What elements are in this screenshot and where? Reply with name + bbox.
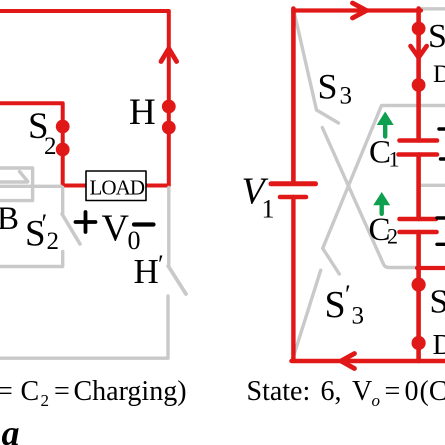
svg-text:2: 2 <box>47 228 60 255</box>
svg-text:D: D <box>433 61 445 88</box>
component: capacitor C2 bottom plate <box>400 230 437 235</box>
component: LOAD box <box>86 171 146 201</box>
wire: gray top-rail continuation to right edge <box>421 7 445 10</box>
current arrow (green) beside C2 <box>380 202 384 214</box>
wire: right vertical, C1-C2 middle segment <box>416 155 421 220</box>
wire: V1 negative lead + bottom rail <box>291 197 445 361</box>
svg-text:B: B <box>0 201 19 237</box>
svg-text:V: V <box>102 208 130 250</box>
svg-text:3: 3 <box>340 83 353 110</box>
label: minus sign of V0 <box>134 222 154 226</box>
node: H switch upper dot <box>162 100 176 114</box>
svg-text:D: D <box>433 329 445 361</box>
component: capacitor C2 top plate <box>400 217 437 222</box>
arrow inside gray box <box>0 172 28 183</box>
svg-text:′: ′ <box>345 280 351 309</box>
wire: gray lead from box to S2 node <box>0 185 61 188</box>
component: battery V1 short plate <box>280 195 306 200</box>
svg-text:3: 3 <box>352 303 365 330</box>
svg-text:1: 1 <box>389 147 400 172</box>
svg-text:S: S <box>325 284 346 326</box>
svg-text:2: 2 <box>387 224 398 249</box>
svg-text:LOAD: LOAD <box>90 176 146 200</box>
wire: down chevron arrow on right vertical <box>411 46 427 58</box>
label: minus dash right edge (C2 bottom) <box>437 243 445 246</box>
component: battery V1 long plate <box>271 181 316 186</box>
svg-text:State:6,Vo=0(C: State:6,Vo=0(C <box>247 376 445 410</box>
svg-text:2: 2 <box>44 133 57 160</box>
svg-text:H: H <box>129 92 156 133</box>
svg-text:H: H <box>134 252 159 291</box>
current arrow (green) beside C1 <box>383 122 387 137</box>
switch S2' open blade <box>62 214 80 244</box>
svg-text:=C2=Charging): =C2=Charging) <box>0 376 187 410</box>
svg-text:0: 0 <box>128 226 141 255</box>
node: H switch lower dot <box>162 121 176 135</box>
component: gray source box (cropped at left edge) <box>0 168 33 201</box>
switch S2' upper terminal stub <box>61 188 64 214</box>
label: minus dash right edge (C1 bottom) <box>441 157 445 160</box>
switch S3 open blade (gray) <box>294 11 339 124</box>
component: capacitor C1 bottom plate <box>399 152 438 157</box>
wire: H' lower stub and left-circuit bottom rail <box>0 296 168 358</box>
switch S3' open blade (gray) <box>293 270 321 359</box>
svg-text:S: S <box>428 18 445 55</box>
svg-text:S: S <box>318 67 338 107</box>
wire: gray mid tap at C1-C2 junction to right edge <box>420 184 445 187</box>
svg-text:′: ′ <box>158 250 164 279</box>
wire: right vertical, bottom segment (C2 to bottom rail) <box>416 232 421 361</box>
wire: current arrow (up chevron) on H branch <box>161 49 177 62</box>
wire: right vertical, top segment (to C1 top plate) <box>416 9 421 141</box>
node: dot above S (bottom) <box>412 278 426 292</box>
label: plus sign of V0 <box>76 212 96 232</box>
wire: gray lead from LOAD-right node down to H' <box>167 188 170 267</box>
node: dot below S (bottom) <box>412 336 426 350</box>
node: dot above C1 <box>412 78 426 92</box>
wire: V1 positive lead (left vertical) <box>291 9 296 184</box>
node: S2 switch upper dot <box>56 120 70 134</box>
svg-text:S: S <box>430 284 445 321</box>
node: S2 switch lower dot <box>56 143 70 157</box>
svg-text:1: 1 <box>262 195 275 224</box>
wire: right-circuit top rail <box>293 8 421 12</box>
wire: gray diagonal to bottom corner + horizontal to right vertical <box>322 128 418 268</box>
label: minus dash right edge (C1 top) <box>439 127 445 130</box>
node: dot above S (top) <box>412 22 426 36</box>
wire: current arrow (left chevron) on bottom rail <box>341 354 355 369</box>
wire: S2' lower stub and bottom lead to left edge <box>0 252 63 267</box>
svg-text:a: a <box>2 413 20 445</box>
label: minus dash right edge (C2 top) <box>437 216 445 219</box>
wire: red tap to right edge at lower junction <box>417 266 445 270</box>
wire: current arrow (right chevron) on top rail <box>353 3 367 18</box>
switch H' open blade <box>168 266 186 294</box>
wire: S2 branch from left edge down into LOAD left side <box>0 103 87 185</box>
wire: gray from right edge + long diagonal + knee (S3' upper connection) <box>323 106 445 275</box>
wire: left circuit top rail + H branch down into LOAD right side <box>0 11 169 186</box>
component: capacitor C1 top plate <box>400 138 438 143</box>
